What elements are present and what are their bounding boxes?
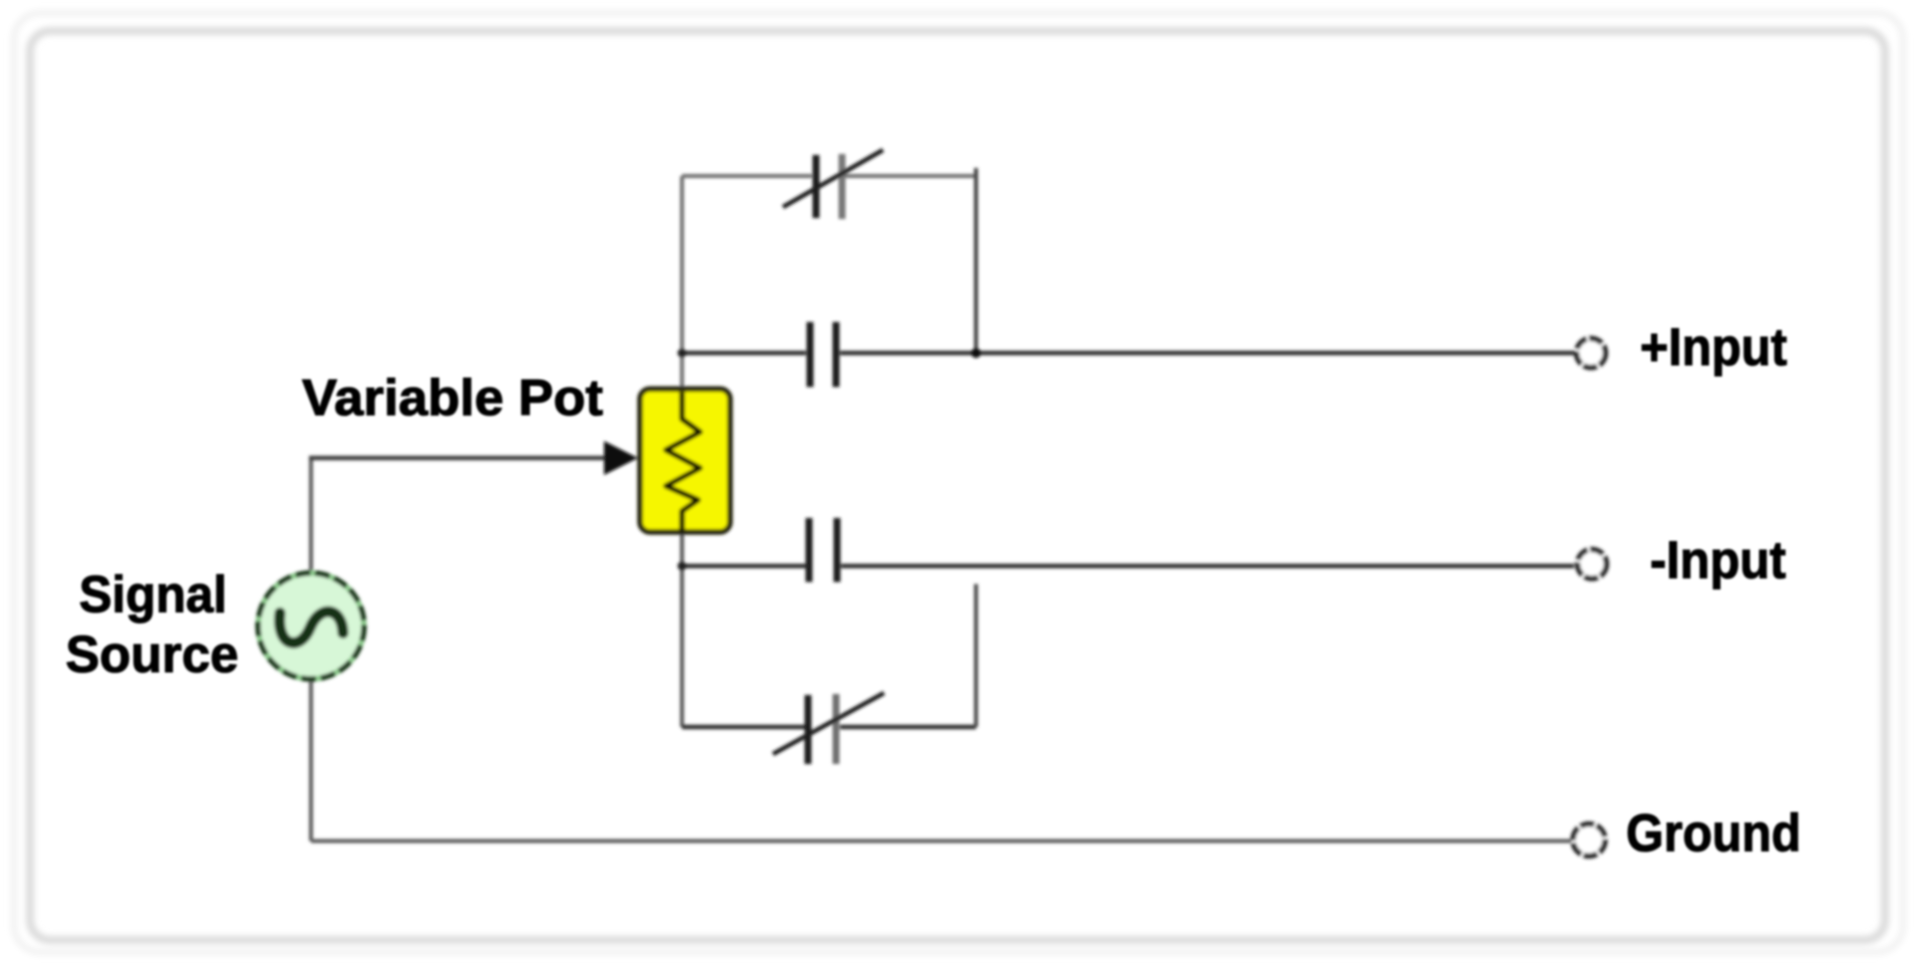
- wire bottom rail right segment: [840, 725, 976, 730]
- variable capacitor C4 arrow: [773, 693, 884, 754]
- wire pot top vertical up to top rail: [680, 176, 684, 390]
- wire top rail left segment: [682, 174, 812, 178]
- terminal +Input: [1577, 339, 1606, 368]
- signal source sine wave: [280, 612, 343, 643]
- wire +Input rail left: [682, 351, 806, 356]
- capacitor C3 left plate: [806, 518, 813, 582]
- wire -Input rail left: [682, 564, 807, 569]
- wire bottom rail left segment: [682, 725, 805, 730]
- variable capacitor C1 left plate: [813, 155, 820, 218]
- junction node pot bottom: [678, 562, 687, 571]
- wire -Input rail right: [841, 564, 1574, 569]
- variable capacitor C1 right plate: [839, 154, 846, 219]
- svg-text:Ground: Ground: [1626, 804, 1801, 863]
- capacitor C2 right plate: [833, 322, 840, 387]
- wire from signal source up to arrow wire: [309, 458, 313, 573]
- junction node right top: [971, 348, 981, 358]
- wire pot bottom vertical: [680, 532, 684, 727]
- junction node pot top: [678, 349, 687, 358]
- wire top rail right segment: [845, 174, 976, 178]
- signal source circle: [258, 573, 364, 679]
- wire ground rail: [311, 839, 1571, 843]
- svg-text:Variable Pot: Variable Pot: [302, 369, 603, 426]
- svg-text:Signal: Signal: [79, 566, 227, 624]
- signal source dashed ring: [258, 573, 364, 679]
- capacitor C3 right plate: [834, 518, 841, 582]
- potentiometer body: [640, 389, 730, 532]
- svg-text:Source: Source: [66, 626, 239, 684]
- capacitor C2 left plate: [807, 322, 814, 387]
- wire right vertical bottom branch: [974, 584, 978, 727]
- wire +Input rail right: [840, 351, 1574, 356]
- wire signal source down: [309, 679, 313, 841]
- potentiometer resistor zigzag: [666, 392, 700, 530]
- variable capacitor C1 arrow: [783, 150, 883, 207]
- arrowhead into pot: [604, 441, 638, 475]
- wire right vertical top branch: [974, 168, 978, 353]
- terminal Ground: [1573, 824, 1605, 856]
- wire arrow horizontal to pot: [309, 456, 606, 461]
- svg-text:+Input: +Input: [1640, 318, 1787, 377]
- terminal -Input: [1578, 550, 1607, 579]
- variable capacitor C4 left plate: [805, 695, 812, 764]
- svg-text:-Input: -Input: [1650, 531, 1786, 590]
- variable capacitor C4 right plate: [833, 694, 840, 764]
